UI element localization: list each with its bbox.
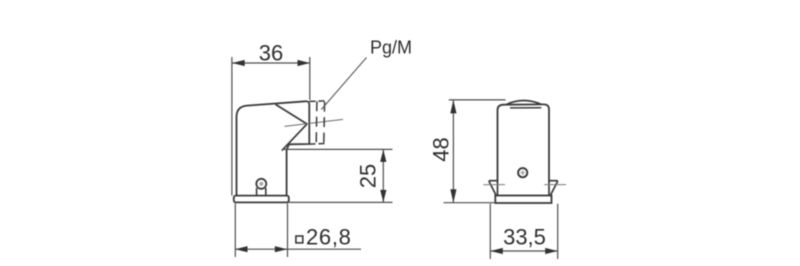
left ear top edge bbox=[489, 180, 498, 182]
base slab bbox=[495, 196, 551, 204]
cable gland dome arc bbox=[506, 101, 541, 105]
arrow left of 33,5 bbox=[490, 248, 503, 254]
right ear centerline bbox=[544, 184, 566, 186]
screw cross mark bbox=[520, 170, 525, 175]
extension line left of 36 dim bbox=[231, 57, 233, 196]
arrow bottom of 25 bbox=[380, 190, 386, 203]
left ear centerline bbox=[483, 184, 505, 186]
extension line right of 26,8 dim bbox=[287, 203, 289, 257]
entry axis centerline bbox=[285, 119, 344, 126]
dimension line 25 bbox=[382, 149, 384, 202]
hidden thread line near face (dashed) bbox=[315, 101, 318, 144]
mounting flange (side view) bbox=[234, 196, 289, 203]
pin shank right line bbox=[265, 188, 267, 196]
svg-text:33,5: 33,5 bbox=[503, 224, 546, 249]
left ear gusset diagonal bbox=[489, 181, 496, 196]
dimension line 33,5 bbox=[490, 250, 557, 252]
arrow left of 36 bbox=[232, 60, 245, 66]
screw head circle bbox=[518, 168, 527, 177]
extension line bottom of 25 dim bbox=[289, 201, 393, 203]
hidden thread top edge (dashed) bbox=[310, 100, 326, 103]
extension line top of 25 dim bbox=[282, 148, 393, 150]
body side lower left bbox=[497, 183, 499, 196]
dimension line 36 bbox=[232, 62, 310, 64]
hood body outline (side view) bbox=[237, 101, 310, 195]
extension line left of 33,5 dim bbox=[489, 204, 491, 259]
extension line right of 33,5 dim bbox=[557, 204, 559, 259]
locking pin circle bbox=[256, 179, 266, 189]
arrow top of 25 bbox=[380, 149, 386, 162]
extension line bottom of 48 dim bbox=[444, 202, 496, 204]
right ear gusset diagonal bbox=[550, 181, 558, 196]
arrow bottom of 48 bbox=[450, 189, 456, 203]
leader line for Pg/M bbox=[321, 58, 366, 110]
svg-text:26,8: 26,8 bbox=[306, 225, 352, 250]
dimension line 48 bbox=[452, 100, 454, 203]
arrow left of 26,8 bbox=[235, 246, 248, 252]
extension line top of 48 dim bbox=[449, 99, 506, 101]
hidden thread line outer (dashed) bbox=[323, 102, 326, 144]
svg-text:48: 48 bbox=[429, 137, 454, 161]
svg-text:Pg/M: Pg/M bbox=[370, 38, 412, 58]
square symbol of 26,8 bbox=[296, 236, 303, 243]
pin center dot bbox=[259, 182, 263, 186]
dimension line 26,8 bbox=[235, 248, 361, 250]
svg-text:36: 36 bbox=[259, 41, 283, 66]
top inner edge line bbox=[510, 107, 541, 109]
hidden thread bottom edge (dashed) bbox=[310, 143, 326, 146]
arrow right of 36 bbox=[298, 60, 311, 66]
extension line left of 26,8 dim bbox=[234, 203, 236, 257]
hood body outline (front view) bbox=[498, 104, 550, 183]
extension line right of 36 dim bbox=[309, 57, 311, 100]
body side lower right bbox=[548, 183, 550, 196]
cable entry cone upper edge bbox=[276, 104, 308, 124]
cable entry cone lower edge bbox=[282, 124, 307, 151]
pin shank left line bbox=[256, 188, 258, 196]
svg-text:25: 25 bbox=[356, 164, 381, 188]
arrow right of 26,8 bbox=[275, 246, 288, 252]
arrow top of 48 bbox=[450, 100, 456, 114]
right ear top edge bbox=[549, 180, 558, 182]
arrow right of 33,5 bbox=[545, 248, 558, 254]
